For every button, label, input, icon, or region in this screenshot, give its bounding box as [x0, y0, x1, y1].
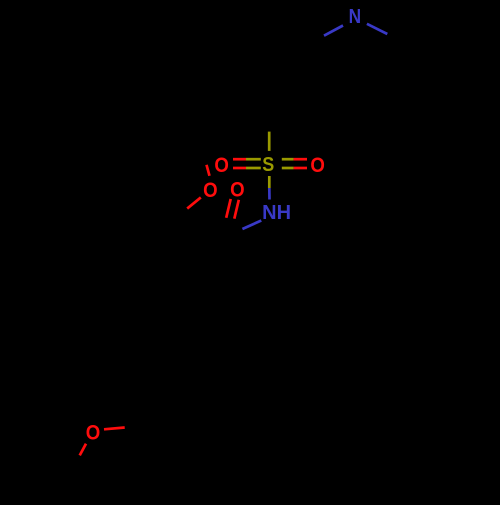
- wire N1 to C (right half-bond): [367, 24, 387, 34]
- wire S1 to ring C (upper half-bond): [268, 132, 271, 151]
- svg-text:N: N: [349, 6, 362, 28]
- wire C=O3 double bond (oxygen halves): [226, 199, 231, 218]
- wire S1=O1 double bond left (red halves): [233, 158, 246, 161]
- atom O2 (sulfonyl O right): [310, 153, 325, 177]
- wire O4 to C down-left (oxygen half): [187, 197, 201, 208]
- wire S1 to N2 (sulfur half): [268, 176, 271, 188]
- atom N1 (dimethylamino/ring N, top): [349, 6, 362, 28]
- atom O1 (sulfonyl O left): [214, 153, 229, 177]
- atom O3 (amide carbonyl O): [230, 177, 245, 201]
- svg-text:O: O: [230, 177, 245, 201]
- svg-text:O: O: [214, 153, 229, 177]
- wire S1=O2 double bond right (red halves): [294, 158, 307, 161]
- svg-text:O: O: [203, 178, 218, 202]
- atom S1 (sulfonyl sulfur): [262, 154, 274, 176]
- atom O4 (ester/ether O): [203, 178, 218, 202]
- wire N2 to carbonyl C (nitrogen half): [242, 221, 261, 230]
- svg-text:O: O: [86, 420, 101, 444]
- wire S1 to N2 (nitrogen half): [268, 188, 271, 200]
- wire O4 to ring C up (oxygen half): [207, 165, 210, 176]
- wire S1=O2 double bond right (sulfur halves): [282, 158, 294, 161]
- svg-text:S: S: [262, 154, 274, 176]
- atom O5 (methoxy O, bottom left): [86, 420, 101, 444]
- wire O5 to methyl C down-left (oxygen half): [80, 444, 86, 456]
- wire S1=O1 double bond left (sulfur halves): [246, 158, 261, 161]
- wire O5 to aryl C right (oxygen half): [104, 428, 125, 430]
- atom N2 (sulfonamide NH): [262, 202, 291, 224]
- svg-text:O: O: [310, 153, 325, 177]
- svg-text:NH: NH: [262, 202, 291, 224]
- wire N1 to C (left half-bond): [324, 26, 343, 36]
